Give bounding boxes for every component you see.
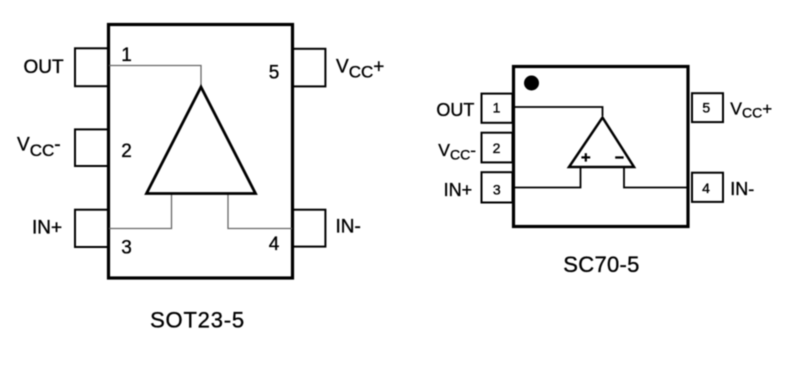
svg-text:3: 3 xyxy=(493,181,501,197)
svg-text:IN-: IN- xyxy=(336,217,361,238)
svg-text:4: 4 xyxy=(702,180,710,196)
svg-text:SOT23-5: SOT23-5 xyxy=(150,308,245,333)
svg-text:2: 2 xyxy=(121,141,132,162)
svg-text:5: 5 xyxy=(269,63,280,84)
svg-text:1: 1 xyxy=(493,99,501,115)
svg-text:IN-: IN- xyxy=(730,179,754,199)
svg-text:1: 1 xyxy=(121,45,132,66)
svg-text:OUT: OUT xyxy=(24,57,65,78)
svg-text:5: 5 xyxy=(702,100,710,116)
svg-text:3: 3 xyxy=(121,238,132,259)
svg-text:OUT: OUT xyxy=(436,100,474,120)
svg-text:IN+: IN+ xyxy=(32,218,62,239)
svg-text:2: 2 xyxy=(493,140,501,156)
svg-text:IN+: IN+ xyxy=(444,180,473,200)
svg-text:SC70-5: SC70-5 xyxy=(563,252,639,277)
svg-text:4: 4 xyxy=(269,234,280,255)
